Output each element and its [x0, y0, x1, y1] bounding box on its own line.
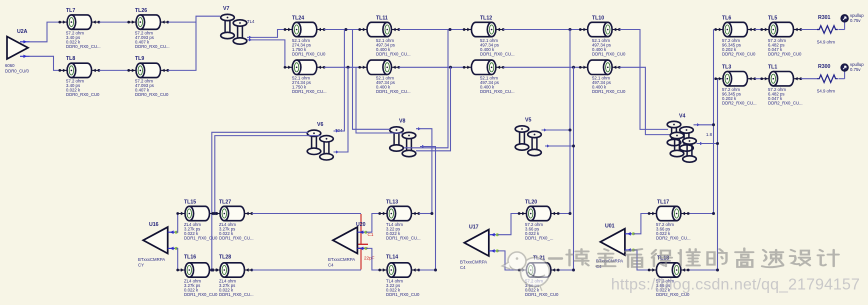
- wire V4 exit up to TL3 row: [697, 143, 718, 145]
- svg-text:DDR1_RX0_CU...: DDR1_RX0_CU...: [376, 89, 411, 94]
- capacitor C1: [354, 214, 375, 270]
- wire V8 exit down to TL13 out: [416, 129, 432, 214]
- junction V5 top: [569, 129, 572, 132]
- svg-text:1.8: 1.8: [706, 132, 713, 137]
- svg-text:0.75v: 0.75v: [850, 67, 861, 72]
- transmission line TL6: [714, 22, 756, 36]
- svg-text:C4: C4: [328, 263, 334, 268]
- wire V6 exit up to row C: [334, 67, 349, 152]
- wire U20 pin to TL14: [366, 248, 380, 270]
- transmission line TL16: [176, 263, 218, 277]
- svg-text:TL17: TL17: [657, 200, 669, 206]
- svg-text:TL24: TL24: [292, 16, 304, 22]
- via V5: [515, 126, 541, 156]
- wire vertical TL3 row to TL18 out: [688, 79, 717, 270]
- wire TL26 out to vertical: [168, 16, 220, 22]
- svg-text:BTxxxCMRPA: BTxxxCMRPA: [460, 260, 487, 265]
- wire U01 pin to TL17: [633, 214, 649, 234]
- svg-text:TL7: TL7: [66, 8, 75, 14]
- svg-text:DDR1_RX0_CU...: DDR1_RX0_CU...: [480, 52, 515, 57]
- svg-text:BTxxxCMRPA: BTxxxCMRPA: [328, 257, 355, 262]
- via V6: [307, 130, 333, 160]
- transmission line TL11: [358, 22, 400, 36]
- svg-text:DDR1_RX0_CU0: DDR1_RX0_CU0: [525, 292, 559, 297]
- svg-text:DDR1_RX0_CU0: DDR1_RX0_CU0: [184, 236, 218, 241]
- wire TL12 to TL10: [503, 29, 580, 31]
- svg-text:U17: U17: [469, 225, 479, 231]
- junction row C x450.5: [449, 66, 452, 69]
- junction row B x346: [344, 28, 347, 31]
- transmission line TL26: [127, 15, 169, 29]
- svg-text:TL1: TL1: [768, 65, 777, 71]
- svg-text:TL6: TL6: [722, 16, 731, 22]
- wire V8 exit down to TL14 out: [420, 147, 436, 271]
- wire U16 pin to TL15: [176, 214, 178, 233]
- svg-text:DDR1_RX0_CU0: DDR1_RX0_CU0: [292, 52, 326, 57]
- transmission line TL21: [518, 263, 560, 277]
- junction V4 exit A: [712, 123, 715, 126]
- wire TL6 to TL5: [755, 29, 762, 31]
- svg-text:DDR1_RX0_CU0: DDR1_RX0_CU0: [592, 89, 626, 94]
- wire U01 pin to TL18: [633, 250, 649, 270]
- svg-text:C1: C1: [368, 232, 374, 237]
- transmission line TL10: [579, 22, 621, 36]
- receiver U17: [464, 230, 499, 256]
- wire U2A out N to TL8: [30, 56, 60, 70]
- transmission line TL3: [714, 72, 756, 86]
- transmission line TL15: [176, 206, 218, 220]
- svg-text:TL8: TL8: [66, 56, 75, 62]
- wire TL8 to TL9: [99, 69, 129, 71]
- junction dots bottom rows: [210, 212, 719, 272]
- wire V7 exit P to TL24: [247, 30, 285, 38]
- svg-text:0.75v: 0.75v: [850, 18, 861, 23]
- svg-text:C4: C4: [460, 265, 466, 270]
- transmission line TL13: [378, 206, 420, 220]
- wire row B down to V8 bottom: [404, 30, 448, 148]
- watermark CSDN logo: [502, 252, 550, 291]
- transmission line TL8: [58, 63, 100, 77]
- wire TL4 out down to via V4: [619, 67, 671, 134]
- wire R301 to power: [838, 29, 844, 31]
- svg-text:TL3: TL3: [722, 65, 731, 71]
- wire V7 exit N to TL23: [247, 40, 285, 67]
- wire V5 stub to vertical l: [545, 145, 574, 147]
- svg-text:V6: V6: [317, 122, 323, 128]
- via V8: [390, 127, 416, 157]
- svg-text:R301: R301: [818, 15, 831, 21]
- svg-text:DDR0_RX0_CU0: DDR0_RX0_CU0: [135, 92, 169, 97]
- svg-text:U16: U16: [149, 222, 159, 228]
- receiver U01: [600, 229, 635, 255]
- svg-text:TL15: TL15: [184, 200, 196, 206]
- wire TL7 to TL26: [99, 21, 129, 23]
- svg-text:DDR1_RX0_CU...: DDR1_RX0_CU...: [480, 89, 515, 94]
- transmission line TL17: [648, 206, 690, 220]
- transmission line TL1b: [760, 72, 802, 86]
- wire U2A out P to TL7: [30, 22, 60, 42]
- svg-text:TL10: TL10: [592, 16, 604, 22]
- svg-text:R300: R300: [818, 64, 831, 70]
- wire V4 exit up to TL6 row: [694, 124, 714, 126]
- svg-text:V7: V7: [223, 6, 229, 12]
- svg-text:TL28: TL28: [219, 255, 231, 261]
- transmission line TL9: [127, 63, 169, 77]
- wire U16 pair up to V6 entry A: [212, 132, 308, 270]
- transmission line TL28: [211, 263, 253, 277]
- wire TL23 to TL2: [324, 66, 360, 68]
- receiver U20: [333, 227, 368, 253]
- svg-text:DDR1_RX0_CU0: DDR1_RX0_CU0: [592, 52, 626, 57]
- svg-text:DDR1_RX0_CU...: DDR1_RX0_CU...: [376, 52, 411, 57]
- svg-text:6060: 6060: [5, 63, 15, 68]
- wire U16 pair up to V6 entry B: [215, 136, 321, 214]
- transmission line TL18: [648, 263, 690, 277]
- svg-text:CY: CY: [138, 263, 144, 268]
- junction row B x570: [569, 28, 572, 31]
- svg-text:DDR2_RX0_CU0: DDR2_RX0_CU0: [768, 52, 802, 57]
- svg-text:DDR0_RX0_CU...: DDR0_RX0_CU...: [135, 44, 170, 49]
- svg-text:DDR0_RX0_CU0: DDR0_RX0_CU0: [66, 92, 100, 97]
- wire U20 pin to TL13: [366, 214, 380, 233]
- svg-text:DDR0_CU/0: DDR0_CU/0: [5, 69, 29, 74]
- svg-text:DDR1_RX0_CU...: DDR1_RX0_CU...: [386, 236, 421, 241]
- svg-text:22pF: 22pF: [364, 256, 375, 261]
- svg-text:U01: U01: [605, 224, 615, 230]
- svg-text:TL9: TL9: [135, 56, 144, 62]
- svg-text:DDR0_RX0_CU...: DDR0_RX0_CU...: [66, 44, 101, 49]
- transmission line TL14: [378, 263, 420, 277]
- svg-text:TL26: TL26: [135, 8, 147, 14]
- wire TL1 to TL4: [503, 66, 580, 68]
- svg-text:U2A: U2A: [17, 29, 28, 35]
- svg-text:TL27: TL27: [219, 200, 231, 206]
- wire TL27 out to cap C1: [252, 213, 361, 215]
- junction V4 exit B: [716, 142, 719, 145]
- wire U16 pin to TL16: [176, 248, 178, 270]
- wire TL9 out to vertical: [168, 22, 196, 70]
- power port vpullup bottom: [841, 64, 848, 79]
- transmission line TL4: [579, 60, 621, 74]
- wire vertical row B to TL20 out: [558, 30, 570, 214]
- wire V6 exit up to row B: [334, 30, 345, 132]
- resistor R301: [817, 26, 838, 34]
- transmission line TL1: [463, 60, 505, 74]
- wire row C down to V8 entry B: [356, 67, 403, 133]
- svg-text:54.9 ohm: 54.9 ohm: [817, 40, 835, 45]
- svg-text:DDR2_RX0_CU0: DDR2_RX0_CU0: [722, 52, 756, 57]
- svg-text:V5: V5: [525, 118, 531, 124]
- transmission line TL2: [358, 60, 400, 74]
- transmission line TL12: [463, 22, 505, 36]
- svg-text:DDR2_RX0_CU...: DDR2_RX0_CU...: [656, 236, 691, 241]
- driver U2A: [5, 29, 30, 74]
- svg-text:DDR1_RX0_CU0: DDR1_RX0_CU0: [184, 292, 218, 297]
- svg-text:DDR1_RX0_CU...: DDR1_RX0_CU...: [219, 236, 254, 241]
- svg-text:TL20: TL20: [525, 200, 537, 206]
- receiver U16: [143, 227, 178, 253]
- junction row C x348: [347, 66, 350, 69]
- svg-text:TL11: TL11: [376, 16, 388, 22]
- via V4 group A: [667, 121, 693, 151]
- svg-text:DDR1_RX0_CU0: DDR1_RX0_CU0: [386, 292, 420, 297]
- wire TL28 out to cap C1: [252, 269, 361, 271]
- svg-text:V8: V8: [399, 119, 405, 125]
- wire TL11 to TL12: [399, 29, 464, 31]
- svg-text:TL5: TL5: [768, 16, 777, 22]
- watermark text (hand-drawn CJK strokes): [549, 248, 839, 267]
- wire TL10 out down to via V4: [619, 30, 668, 130]
- transmission line TL7: [58, 15, 100, 29]
- svg-text:V4: V4: [679, 114, 685, 120]
- transmission line TL5: [760, 22, 802, 36]
- svg-text:TL12: TL12: [480, 16, 492, 22]
- svg-text:https://blog.csdn.net/qq_21794: https://blog.csdn.net/qq_21794157: [611, 277, 860, 294]
- svg-text:DDR2_RX0_CU...: DDR2_RX0_CU...: [768, 101, 803, 106]
- via V7: [221, 14, 247, 44]
- svg-text:TL14: TL14: [386, 255, 398, 261]
- svg-text:DDR1_RX0_...: DDR1_RX0_...: [525, 236, 553, 241]
- svg-text:TL4: TL4: [247, 19, 255, 24]
- wire row C down to V8 bottom: [416, 67, 451, 151]
- junction row C x573.5: [572, 66, 575, 69]
- wire U17 pin to TL21: [497, 251, 519, 270]
- wire vertical TL6 row to TL17 out: [688, 30, 713, 214]
- junction row B x450: [449, 28, 452, 31]
- wire vertical row C to TL21 out: [558, 67, 573, 270]
- svg-text:BTxxxCMRPA: BTxxxCMRPA: [138, 257, 165, 262]
- wire R300 to power: [838, 78, 844, 80]
- junction V5 bottom: [572, 145, 575, 148]
- wire TL24 to TL11: [324, 29, 360, 31]
- transmission line TL23: [284, 60, 326, 74]
- svg-text:TL16: TL16: [184, 255, 196, 261]
- wire TL3 to TL1b: [755, 78, 762, 80]
- wire V5 stub to vertical k: [542, 129, 571, 131]
- resistor R300: [817, 75, 838, 83]
- transmission line TL20: [518, 206, 560, 220]
- svg-text:DDR2_RX0_CU...: DDR2_RX0_CU...: [722, 101, 757, 106]
- wire row B down to V8 entry A: [353, 30, 391, 130]
- wire TL14 out: [419, 269, 436, 271]
- wire TL2 to TL1: [399, 66, 464, 68]
- wire TL5 to R301: [801, 29, 817, 31]
- wire U17 pin to TL20: [497, 214, 519, 235]
- svg-text:DDR1_RX0_CU...: DDR1_RX0_CU...: [219, 292, 254, 297]
- transmission line TL24: [284, 22, 326, 36]
- power port vpullup top: [841, 15, 848, 30]
- svg-text:TL13: TL13: [386, 200, 398, 206]
- wire TL13 out: [419, 213, 432, 215]
- svg-text:54.9 ohm: 54.9 ohm: [817, 89, 835, 94]
- transmission line TL27: [211, 206, 253, 220]
- svg-text:U20: U20: [356, 222, 366, 228]
- svg-text:DDR1_RX0_CU...: DDR1_RX0_CU...: [292, 89, 327, 94]
- wire TL6 left stub joint: [714, 29, 716, 31]
- via V4 group B: [670, 132, 696, 162]
- wire TL1b to R300: [801, 78, 817, 80]
